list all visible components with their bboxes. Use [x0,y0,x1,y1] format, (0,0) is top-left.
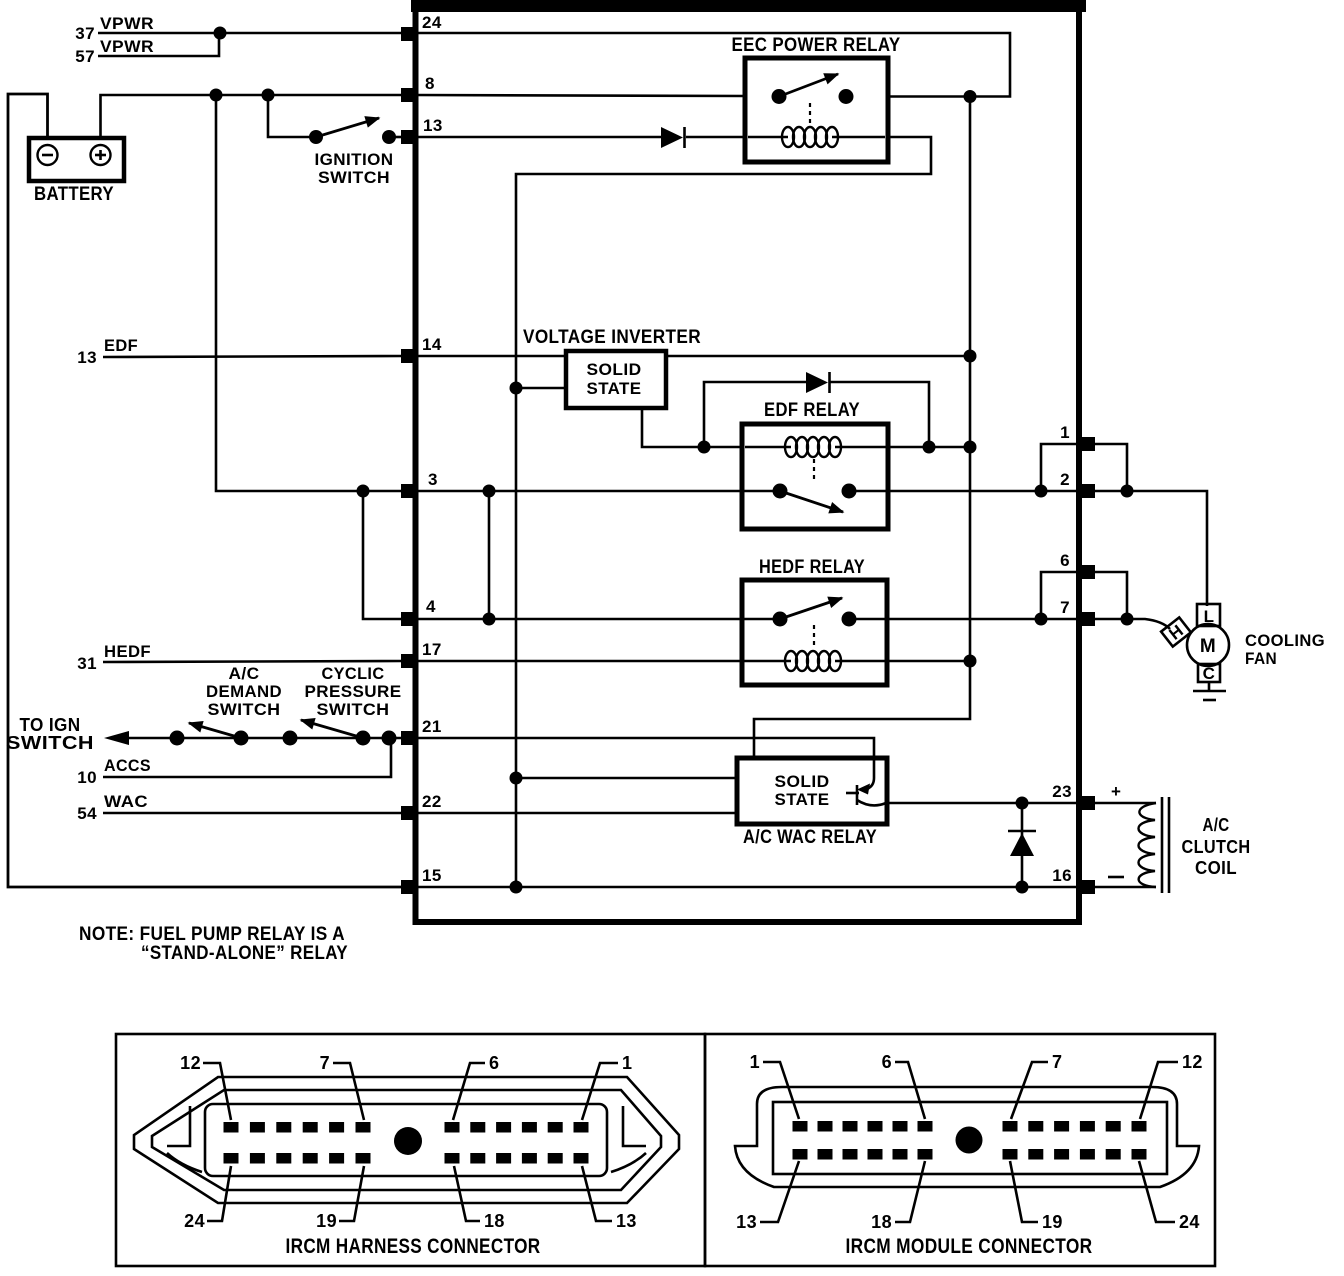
IRCM harness connector J1 [134,1077,679,1203]
wire pin 22 to WAC relay [415,812,737,815]
svg-text:STATE: STATE [775,790,830,809]
wire EEC coil return to inverter feed [516,137,931,887]
module pins top row [793,1121,1147,1132]
svg-text:13: 13 [616,1211,637,1231]
node ground line junction [510,881,523,894]
wire WAC feed stub [516,777,737,780]
node pin7 right loop [1121,613,1134,626]
svg-text:VPWR: VPWR [100,14,154,33]
svg-text:+: + [1111,782,1121,801]
A/C clutch coil L1 [1139,797,1170,893]
svg-text:13: 13 [423,116,443,135]
node pin2 left loop [1035,485,1048,498]
svg-text:13: 13 [736,1212,757,1232]
battery B1 [29,138,124,181]
svg-text:24: 24 [1179,1212,1200,1232]
wire VPWR 37 to pin 24 [98,32,402,35]
node VPWR junction [214,27,227,40]
svg-text:16: 16 [1052,866,1072,885]
svg-text:SWITCH: SWITCH [208,700,281,719]
IRCM module box left edge [413,3,419,924]
svg-text:6: 6 [1060,551,1070,570]
wire pin 14 to inverter [415,355,566,358]
svg-text:10: 10 [77,768,97,787]
wire VPWR 57 riser [98,33,219,56]
svg-text:23: 23 [1052,782,1072,801]
node pin3/pin4 split outside [357,485,370,498]
svg-text:EDF: EDF [104,336,138,355]
svg-text:NOTE: FUEL PUMP RELAY IS A: NOTE: FUEL PUMP RELAY IS A [79,924,345,945]
svg-text:M: M [1200,636,1216,657]
A/C demand switch arm [189,723,241,738]
svg-text:COOLING: COOLING [1245,631,1325,650]
svg-text:TO IGN: TO IGN [20,715,81,735]
svg-text:VOLTAGE INVERTER: VOLTAGE INVERTER [523,327,701,348]
node pin4 line inside [483,613,496,626]
node pin7 left loop [1035,613,1048,626]
svg-text:C: C [1203,664,1216,683]
svg-text:SWITCH: SWITCH [318,168,390,187]
wire battery negative to left border and ground return to pin 15 [8,94,402,887]
svg-text:6: 6 [489,1053,499,1073]
svg-text:37: 37 [75,24,95,43]
pin 3 pad [401,484,416,498]
svg-text:15: 15 [422,866,442,885]
wire pin 8 to EEC relay switch input [415,95,747,96]
svg-text:14: 14 [422,335,442,354]
wire pin 6 loop left [1041,572,1080,619]
wire inverter feed stub [516,387,566,390]
svg-text:18: 18 [871,1212,892,1232]
svg-text:COIL: COIL [1195,858,1237,878]
wire EDF switch to pin 2 and cooling fan L [849,491,1207,606]
svg-text:57: 57 [75,47,95,66]
svg-text:L: L [1204,607,1215,626]
wire split down to pin 4 line [488,491,491,619]
cooling fan motor M1 [1187,604,1229,683]
node ignition switch feed [262,89,275,102]
svg-text:31: 31 [77,654,97,673]
svg-text:1: 1 [750,1052,760,1072]
diode CR2 bypass over EDF coil [704,382,929,447]
relay K3 HEDF relay [742,580,887,685]
svg-text:BATTERY: BATTERY [34,184,114,205]
wire pin 13 to diode CR1 [415,136,662,139]
wire pin 1 loop left [1041,444,1080,491]
pin 2 pad [1080,484,1095,498]
svg-text:6: 6 [882,1052,892,1072]
pin 14 pad [401,349,416,363]
svg-text:1: 1 [622,1053,632,1073]
svg-text:PRESSURE: PRESSURE [305,682,402,701]
svg-text:“STAND-ALONE” RELAY: “STAND-ALONE” RELAY [141,943,348,964]
wire pin 1 loop right [1090,444,1127,491]
wire inverter bottom to EDF coil [642,408,744,447]
node pin2 right loop [1121,485,1134,498]
pin 24 pad [401,27,416,41]
pin 16 pad [1080,880,1095,894]
svg-text:2: 2 [1060,470,1070,489]
pin 22 pad [401,806,416,820]
svg-text:CYCLIC: CYCLIC [322,664,385,683]
pin 6 pad [1080,565,1095,579]
node cyclic switch pivot [356,731,371,746]
pin 15 pad [401,880,416,894]
node WAC relay input [510,772,523,785]
wire HEDF coil to main bus [886,660,970,663]
wire battery feed down to pin 3 [216,95,402,491]
svg-text:54: 54 [77,804,97,823]
svg-text:HEDF RELAY: HEDF RELAY [759,557,865,578]
IRCM module box right edge [1076,3,1082,924]
wire diode to EEC coil [686,136,747,139]
wire pin 16 to clutch coil [1092,886,1156,889]
svg-text:24: 24 [422,13,442,32]
svg-text:VPWR: VPWR [100,37,154,56]
node EDF coil right [923,441,936,454]
wire WAC output to pin 23 [885,802,1080,805]
node clamp diode bottom [1016,881,1029,894]
svg-text:3: 3 [428,470,438,489]
wire HEDF to pin 17 [103,661,402,662]
wire pin 17 to HEDF coil (passes under) [415,660,745,663]
wire pin 24 to EEC relay switch output [415,33,1010,97]
node HEDF coil bus [964,655,977,668]
svg-text:7: 7 [1052,1052,1062,1072]
relay K2 EDF relay [742,424,970,529]
svg-text:24: 24 [184,1211,205,1231]
svg-text:A/C WAC RELAY: A/C WAC RELAY [743,827,877,848]
svg-text:A/C: A/C [1203,815,1230,835]
svg-text:EDF RELAY: EDF RELAY [764,400,860,421]
pin 7 pad [1080,612,1095,626]
pin 23 pad [1080,796,1095,810]
node clamp diode top [1016,797,1029,810]
cyclic pressure switch arm [301,720,363,738]
wire pin 4 to HEDF switch [415,618,780,621]
wire battery positive to pin 8 [101,95,403,140]
svg-text:12: 12 [1182,1052,1203,1072]
pin 4 pad [401,612,416,626]
fan H terminal [1161,617,1191,647]
svg-text:4: 4 [426,597,436,616]
svg-text:8: 8 [425,74,435,93]
wire inverter output to main bus [666,355,970,358]
svg-text:IRCM HARNESS CONNECTOR: IRCM HARNESS CONNECTOR [286,1235,541,1258]
node switch contact b [283,731,298,746]
svg-text:19: 19 [316,1211,337,1231]
svg-text:HEDF: HEDF [104,642,151,661]
svg-text:18: 18 [484,1211,505,1231]
module connector frame [705,1034,1215,1266]
wire pin 21 to WAC transistor [415,738,874,789]
node inverter output bus [964,350,977,363]
IRCM module connector J2 [735,1087,1199,1187]
wire pin 15 to pin 16 ground line [415,886,1080,889]
svg-text:19: 19 [1042,1212,1063,1232]
svg-text:SOLID: SOLID [775,772,830,791]
IRCM module box top edge (cropped) [411,0,1086,12]
diode CR3 clamp [1008,803,1036,887]
harness pins bottom row [224,1153,589,1164]
IRCM module box bottom edge [413,919,1083,925]
label minus [1108,876,1124,879]
wire A/C switches line to pin 21 [124,737,402,740]
svg-text:CLUTCH: CLUTCH [1182,837,1251,857]
wire EDF to pin 14 [103,356,402,357]
svg-text:21: 21 [422,717,442,736]
arrow to ignition switch [104,731,129,745]
node pin3/pin4 split inside [483,485,496,498]
svg-text:IGNITION: IGNITION [315,150,394,169]
node EDF coil bus [964,441,977,454]
svg-text:7: 7 [320,1053,330,1073]
svg-text:WAC: WAC [104,792,148,811]
svg-text:SWITCH: SWITCH [6,733,94,753]
wire HEDF switch to pin 7 and fan H [849,619,1170,629]
pin 1 pad [1080,437,1095,451]
svg-text:STATE: STATE [587,379,642,398]
svg-text:A/C: A/C [229,664,260,683]
wire WAC to pin 22 [103,812,402,815]
svg-text:13: 13 [77,348,97,367]
svg-text:7: 7 [1060,598,1070,617]
wire main bus vertical [754,97,970,761]
svg-text:SWITCH: SWITCH [317,700,390,719]
relay K4 A/C WAC solid state relay [737,758,887,824]
module pins bottom row [793,1149,1147,1160]
voltage inverter U1 [566,351,666,408]
node switch contact a [170,731,185,746]
node ACCS junction [382,731,397,746]
svg-text:17: 17 [422,640,442,659]
ground symbol [1193,681,1226,700]
svg-text:FAN: FAN [1245,649,1277,668]
pin 13 pad [401,130,416,144]
ignition switch S1 [268,95,310,137]
node inverter input [510,382,523,395]
relay K1 EEC power relay [745,58,888,162]
node EDF coil left [698,441,711,454]
harness pins top row [224,1122,589,1133]
diode CR1 [661,127,683,148]
svg-text:SOLID: SOLID [587,360,642,379]
svg-text:22: 22 [422,792,442,811]
wire ACCS up to pin 21 line [103,741,391,777]
wire pin 3 to EDF switch [415,490,780,493]
svg-text:12: 12 [180,1053,201,1073]
svg-text:EEC POWER RELAY: EEC POWER RELAY [732,35,901,56]
svg-text:IRCM MODULE CONNECTOR: IRCM MODULE CONNECTOR [846,1235,1093,1258]
wire pin3 to pin4 outside [363,491,402,619]
wire pin 6 loop right [1090,572,1127,619]
node battery feed split [210,89,223,102]
pin 8 pad [401,88,416,102]
node A/C demand switch pivot [234,731,249,746]
wire pin 23 to clutch coil [1092,802,1156,805]
pin 21 pad [401,731,416,745]
svg-text:DEMAND: DEMAND [206,682,282,701]
svg-text:ACCS: ACCS [104,756,151,775]
pin 17 pad [401,654,416,668]
svg-text:1: 1 [1060,423,1070,442]
harness connector frame [116,1034,705,1266]
node EEC output / main bus top [964,90,977,103]
